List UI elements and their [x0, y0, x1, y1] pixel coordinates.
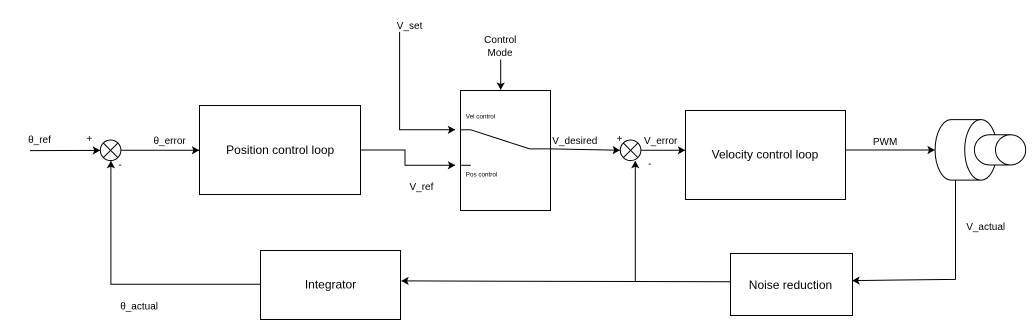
svg-text:+: +: [617, 134, 623, 145]
svg-text:Vel control: Vel control: [466, 114, 495, 121]
svg-text:Integrator: Integrator: [305, 278, 356, 292]
svg-text:Control: Control: [484, 35, 516, 46]
svg-text:Mode: Mode: [487, 48, 512, 59]
svg-text:V_desired: V_desired: [552, 136, 597, 147]
svg-text:PWM: PWM: [873, 137, 897, 148]
svg-text:Noise reduction: Noise reduction: [749, 278, 832, 292]
svg-text:-: -: [119, 160, 122, 171]
svg-text:Velocity control loop: Velocity control loop: [712, 147, 819, 161]
svg-text:Position control loop: Position control loop: [226, 143, 334, 157]
svg-text:θ_error: θ_error: [154, 136, 187, 147]
svg-text:Pos control: Pos control: [466, 172, 498, 179]
svg-text:V_ref: V_ref: [410, 182, 434, 193]
svg-text:V_set: V_set: [397, 21, 423, 32]
svg-text:θ_actual: θ_actual: [120, 302, 158, 313]
svg-text:+: +: [86, 134, 92, 145]
svg-text:V_actual: V_actual: [966, 222, 1005, 233]
svg-text:-: -: [648, 159, 651, 170]
svg-text:θ_ref: θ_ref: [28, 135, 51, 146]
svg-text:V_error: V_error: [644, 136, 678, 147]
